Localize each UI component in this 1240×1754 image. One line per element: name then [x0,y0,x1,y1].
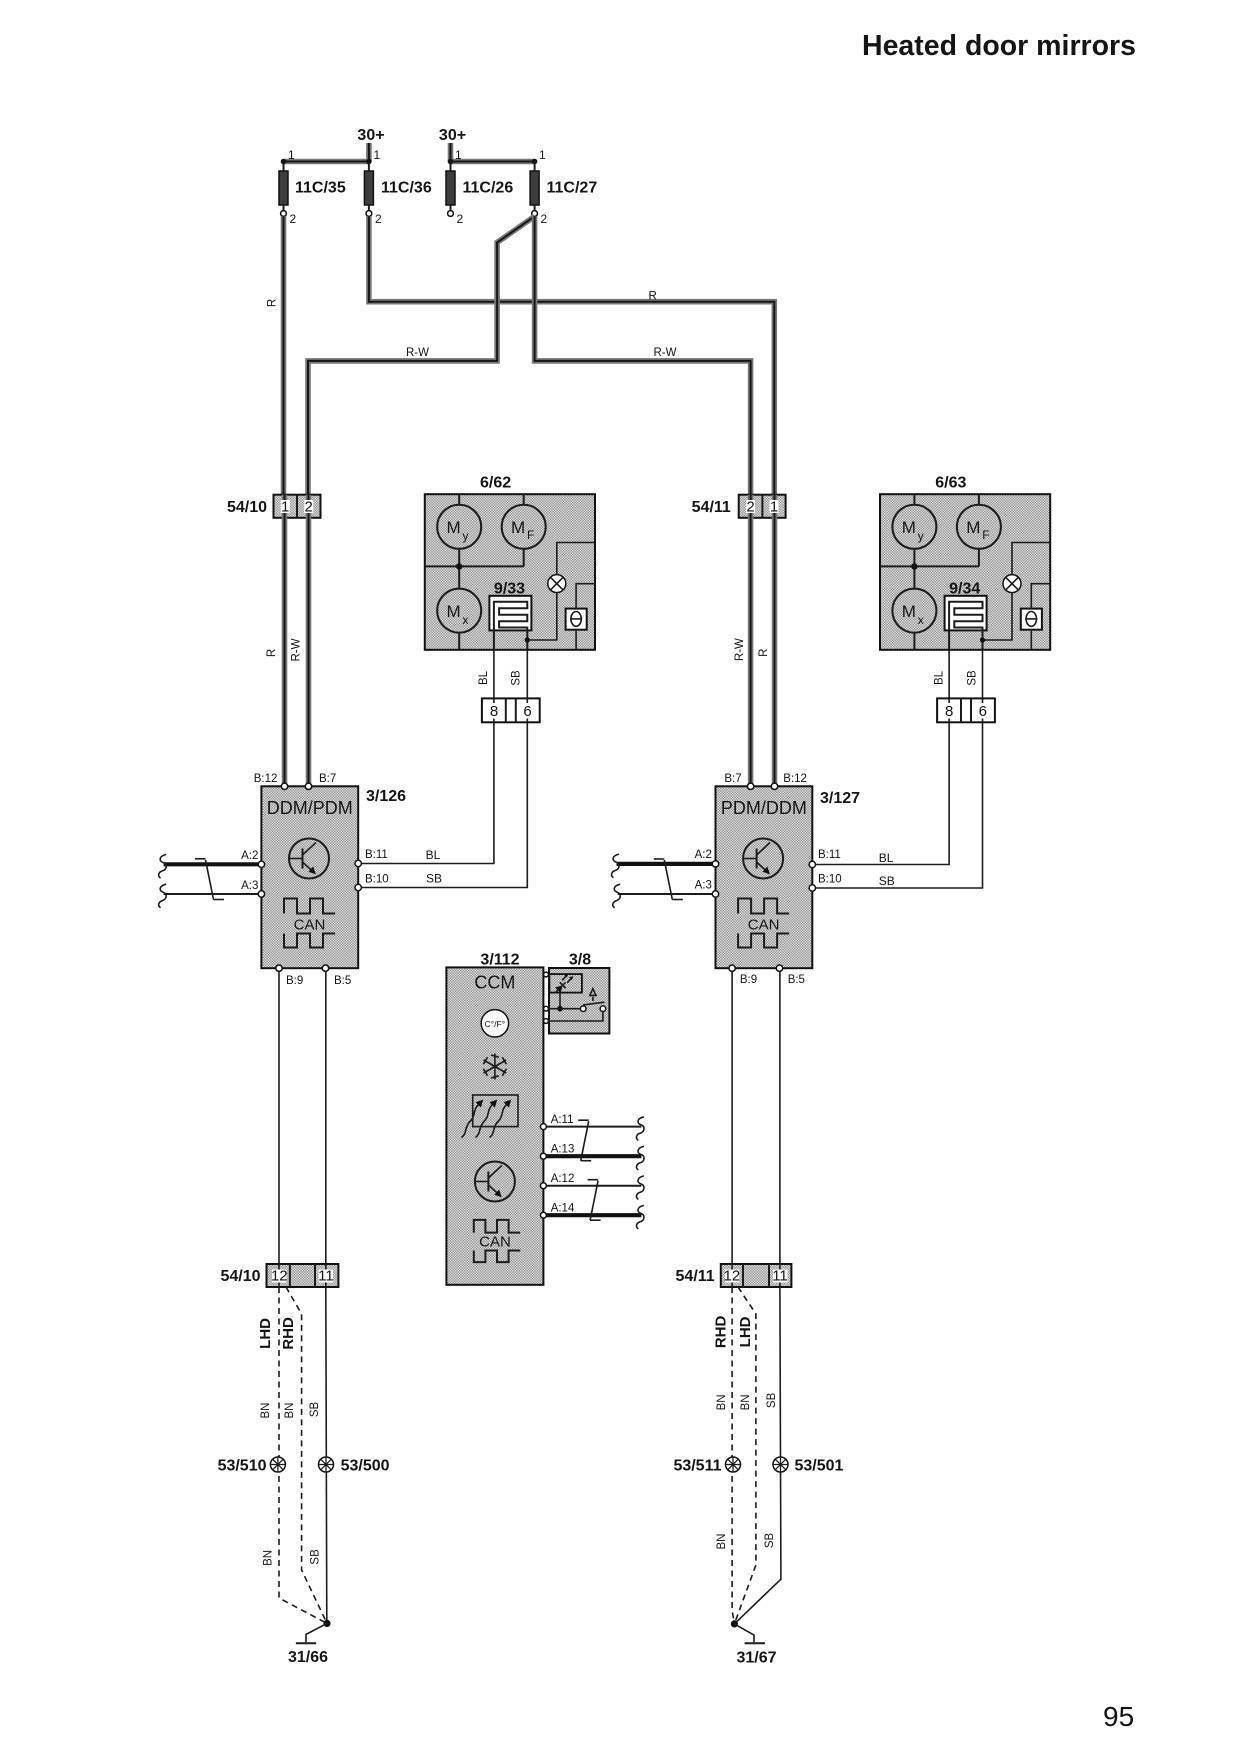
svg-text:LHD: LHD [737,1316,754,1347]
pin A:3 (3/126) [241,880,264,897]
svg-text:2: 2 [290,212,297,226]
svg-text:CAN: CAN [748,917,780,934]
svg-text:2: 2 [375,212,382,226]
svg-text:BL: BL [426,848,441,862]
svg-text:3/127: 3/127 [820,790,860,807]
module CCM 3/112 [446,952,543,1285]
svg-text:31/66: 31/66 [288,1649,328,1666]
twisted pair marker (3/127) [654,859,683,900]
wire R from 11C/36 to 54/11 pin 1 [369,216,774,494]
svg-text:1: 1 [539,148,546,162]
pin B:12 (3/127) [771,773,807,790]
pin A:13 (CCM) [540,1144,574,1160]
svg-text:R-W: R-W [406,347,429,359]
pin B:5 (3/127) [776,965,805,986]
wire SB PDM B:5 to 54/11 pin 11 [779,971,781,1264]
svg-text:3/112: 3/112 [480,952,519,969]
wire SB DDM B:5 to 54/10 pin 11 [325,971,327,1264]
svg-text:B:12: B:12 [783,773,807,785]
connector 8/6 (right) [937,698,995,722]
motor Mx (6/62) [437,589,481,650]
svg-text:F: F [527,528,534,542]
ground 31/66 [288,1620,331,1666]
pin B:9 (3/127) [729,965,757,986]
svg-text:R-W: R-W [734,638,746,661]
svg-text:1: 1 [455,148,462,162]
svg-text:x: x [463,613,469,627]
splice 53/510 [218,1457,286,1474]
svg-text:53/501: 53/501 [795,1457,844,1474]
svg-text:B:10: B:10 [365,874,389,886]
wire bus 30+ between 11C/26 and 11C/27 [448,159,538,165]
wire CAN-L stub (3/126 A:3) [159,884,259,908]
svg-text:6: 6 [523,703,531,720]
svg-text:BL: BL [478,670,490,685]
motor MF (6/62) [502,494,546,549]
svg-text:BL: BL [879,851,894,865]
wire BN LHD from 54/11 pin 12 [734,1287,756,1624]
svg-text:M: M [511,518,525,537]
svg-text:B:12: B:12 [254,773,278,785]
wire R from 11C/35 down to 54/10 pin 1 [267,216,284,494]
svg-text:53/510: 53/510 [218,1457,267,1474]
svg-text:53/511: 53/511 [673,1457,721,1474]
svg-text:A:3: A:3 [241,880,258,892]
wire BN RHD from 54/11 pin 12 [713,1287,735,1624]
svg-text:M: M [902,518,916,537]
transistor symbol (3/127) [743,839,783,879]
pin B:7 (3/127) [724,773,753,790]
pin B:5 (3/126) [322,965,351,987]
wire CAN-H stub (3/126 A:2) [159,855,259,879]
svg-text:x: x [918,613,924,627]
motor MF (6/63) [957,494,1001,549]
svg-text:A:2: A:2 [695,849,712,861]
transistor symbol (CCM) [475,1162,515,1202]
svg-text:SB: SB [967,670,979,686]
pin B:12 (3/126) [254,773,288,790]
svg-text:2: 2 [305,499,313,516]
svg-text:SB: SB [879,874,895,888]
pin CCM/3-8 mid [544,1006,549,1011]
svg-text:B:7: B:7 [319,773,336,785]
svg-text:A:12: A:12 [551,1173,575,1185]
switch unit 3/8 [549,952,609,1034]
wire SB from 54/11 pin 11 to ground [734,1287,781,1624]
svg-text:R-W: R-W [290,638,302,661]
svg-text:1: 1 [281,499,289,516]
module DDM/PDM 3/126 [261,786,406,968]
mirror unit 6/63 [880,475,1050,650]
svg-text:6: 6 [979,703,987,720]
svg-text:BL: BL [933,670,945,685]
heated rear window symbol (CCM) [462,1095,519,1138]
fuse 11C/35 [279,148,346,226]
svg-text:8: 8 [945,703,953,720]
twisted pair marker (3/126) [195,859,224,900]
svg-text:A:2: A:2 [241,850,258,862]
svg-text:30+: 30+ [439,127,466,144]
wire bus 30+ between 11C/35 and 11C/36 [281,159,372,165]
motor My (6/63) [892,494,936,549]
svg-text:30+: 30+ [357,127,384,144]
thermal switch (6/62) [566,584,595,649]
connector 54/10 (bottom) [220,1264,338,1287]
pin B:9 (3/126) [276,965,303,987]
svg-text:CAN: CAN [479,1234,511,1251]
node 30+ feed (right) [439,127,466,162]
svg-text:11C/26: 11C/26 [463,180,514,197]
CAN symbol (CCM) [474,1220,520,1262]
svg-text:CCM: CCM [474,973,515,993]
svg-text:BN: BN [263,1550,275,1566]
svg-text:M: M [447,518,461,537]
svg-text:DDM/PDM: DDM/PDM [267,798,353,818]
svg-text:SB: SB [310,1549,322,1565]
wire switch lower contact (3/8) [549,1012,603,1022]
svg-text:C°/F°: C°/F° [485,1019,506,1029]
svg-text:11C/27: 11C/27 [547,180,598,197]
pin A:2 (3/126) [241,850,264,868]
pin A:14 (CCM) [540,1203,575,1219]
wire R-W from 11C/27 branch right [535,216,751,494]
svg-text:11: 11 [318,1268,334,1285]
svg-text:B:5: B:5 [334,975,351,987]
switch contacts (3/8) [549,1002,606,1011]
wire R-W from 11C/27 branch left [308,216,535,494]
svg-text:3/126: 3/126 [366,788,406,805]
svg-text:11C/36: 11C/36 [381,180,432,197]
svg-text:3/8: 3/8 [569,952,591,969]
wire A:12 [546,1176,644,1200]
svg-text:95: 95 [1103,1701,1134,1732]
motor My (6/62) [437,494,481,549]
temperature C/F symbol (CCM) [481,1010,508,1037]
svg-text:1: 1 [770,499,778,516]
wire A:13 [546,1146,644,1170]
wire SB 6/63 to connector 6 [982,650,984,699]
twisted pair marker A:12/A:14 [588,1180,601,1221]
svg-text:8: 8 [490,703,498,720]
wire BN RHD from 54/10 pin 12 [280,1287,327,1623]
svg-text:2: 2 [746,499,754,516]
wire R 54/10 pin1 to DDM B:12 [266,518,285,783]
svg-text:54/11: 54/11 [692,499,731,516]
wire CAN-H stub (3/127 A:2) [612,854,713,878]
svg-text:R: R [649,291,657,303]
fuse 11C/26 [446,148,513,226]
thermal switch (6/63) [1021,584,1050,649]
pin A:3 (3/127) [695,880,719,898]
wire BL connector to DDM B:11 [362,670,494,863]
connector 54/11 (top) [692,495,786,518]
indicator lamp (6/63) [980,543,1050,643]
wire SB connector to DDM B:10 [362,670,528,887]
wire BL 6/63 to connector 8 [948,650,950,699]
pin CCM/3-8 low [544,1019,549,1024]
svg-text:6/63: 6/63 [935,475,966,492]
LED box (3/8) [549,974,582,996]
svg-text:11C/35: 11C/35 [295,180,346,197]
svg-text:y: y [918,529,924,543]
svg-text:31/67: 31/67 [736,1650,776,1667]
pin B:10 (3/127) [809,874,842,892]
pin B:11 (3/127) [809,849,841,868]
node 30+ feed (left) [357,127,384,162]
svg-text:M: M [966,518,980,537]
wire CAN-L stub (3/127 A:3) [613,884,713,908]
wire BL 6/62 to connector 8 [493,650,495,699]
svg-text:A:13: A:13 [551,1144,575,1156]
pin CCM/3-8 top [544,972,549,977]
svg-text:y: y [463,529,469,543]
svg-text:BN: BN [716,1534,728,1550]
wire A:11 [546,1117,644,1141]
svg-text:SB: SB [764,1533,776,1549]
module PDM/DDM 3/127 [716,786,861,968]
wire SB connector to PDM B:10 [815,670,982,888]
svg-text:B:11: B:11 [818,849,841,861]
svg-text:F: F [982,528,989,542]
svg-text:12: 12 [724,1268,741,1285]
connector 54/10 (top) [227,495,321,518]
pin B:10 (3/126) [355,874,389,891]
svg-text:LHD: LHD [257,1318,274,1349]
svg-text:6/62: 6/62 [480,475,511,492]
svg-text:B:9: B:9 [286,975,303,987]
svg-text:1: 1 [288,148,295,162]
svg-text:SB: SB [766,1392,778,1408]
transistor symbol (3/126) [289,839,329,879]
wire BN DDM B:9 to 54/10 pin 12 [278,971,280,1264]
twisted pair marker A:11/A:13 [578,1120,591,1161]
connector 54/11 (bottom) [676,1264,792,1287]
connector 8/6 (left) [482,698,540,722]
svg-text:PDM/DDM: PDM/DDM [721,798,807,818]
svg-text:54/10: 54/10 [220,1268,260,1285]
svg-text:A:3: A:3 [695,880,712,892]
svg-text:2: 2 [541,212,548,226]
svg-text:BN: BN [740,1394,752,1410]
svg-text:R: R [266,649,278,657]
wire BN PDM B:9 to 54/11 pin 12 [731,971,733,1264]
wire R-W 54/10 pin2 to DDM B:7 [290,518,308,783]
wire A:14 [546,1205,644,1229]
wire SB from 54/10 pin 11 to ground [309,1287,327,1623]
svg-text:B:9: B:9 [740,974,757,986]
wire LED cathode to junction (3/8) [557,993,563,1012]
pin A:12 (CCM) [540,1173,574,1189]
svg-text:B:7: B:7 [724,773,741,785]
pin A:2 (3/127) [695,849,719,867]
fuse 11C/36 [364,148,431,226]
svg-text:SB: SB [309,1402,321,1418]
svg-text:54/11: 54/11 [676,1268,715,1285]
svg-text:CAN: CAN [294,917,326,934]
svg-text:2: 2 [457,212,464,226]
wire R-W 54/11 pin2 to PDM B:7 [734,518,751,783]
svg-text:12: 12 [271,1268,288,1285]
CAN symbol (3/127) [738,899,789,948]
mirror unit 6/62 [425,475,595,650]
indicator lamp (6/62) [525,543,595,643]
svg-text:SB: SB [510,670,522,686]
splice 53/511 [673,1457,740,1474]
pin B:11 (3/126) [355,849,388,867]
splice 53/500 [319,1457,390,1474]
svg-text:B:5: B:5 [788,974,805,986]
svg-text:B:11: B:11 [365,849,388,861]
push button symbol (3/8) [590,989,596,1001]
wire R 54/11 pin1 to PDM B:12 [758,518,774,783]
svg-text:R: R [267,299,279,307]
ground 31/67 [731,1620,777,1666]
svg-text:M: M [447,602,461,621]
svg-text:R: R [758,649,770,657]
svg-text:BN: BN [716,1394,728,1410]
svg-text:A:14: A:14 [551,1203,575,1215]
svg-text:M: M [902,602,916,621]
svg-text:BN: BN [284,1403,296,1419]
svg-text:BN: BN [260,1403,272,1419]
svg-text:11: 11 [772,1268,788,1285]
svg-text:B:10: B:10 [818,874,842,886]
svg-text:54/10: 54/10 [227,499,267,516]
wire BN LHD from 54/10 pin 12 [257,1287,327,1623]
wire BL connector to PDM B:11 [815,670,949,865]
fuse 11C/27 [530,148,597,226]
svg-text:RHD: RHD [713,1315,730,1348]
pin B:7 (3/126) [305,773,336,790]
snowflake symbol (CCM) [483,1054,506,1080]
heating element 9/34 [945,580,987,649]
heating element 9/33 [489,580,531,649]
CAN symbol (3/126) [284,899,335,948]
svg-text:1: 1 [374,148,381,162]
svg-text:SB: SB [426,872,442,886]
svg-text:R-W: R-W [654,347,677,359]
svg-text:53/500: 53/500 [341,1457,390,1474]
wire internal junction (6/62) [425,549,524,589]
svg-text:RHD: RHD [280,1317,297,1350]
pin A:11 (CCM) [540,1114,573,1130]
motor Mx (6/63) [892,589,936,650]
wire internal junction (6/63) [880,549,979,589]
svg-text:Heated door mirrors: Heated door mirrors [862,30,1136,62]
splice 53/501 [773,1457,844,1474]
wire SB 6/62 to connector 6 [526,650,528,699]
svg-text:A:11: A:11 [551,1114,574,1126]
